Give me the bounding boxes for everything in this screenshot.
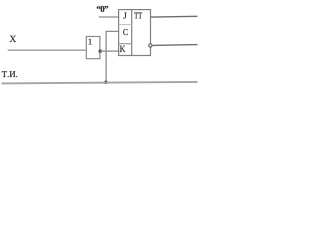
net T.I (clock) label	[2, 71, 17, 77]
wire X input to inverter	[8, 49, 86, 51]
junction dot A at inverter output	[98, 49, 102, 53]
flip-flop pin-field divider	[131, 10, 133, 56]
divider C/K	[119, 43, 132, 45]
pin C label	[123, 29, 127, 35]
flip-flop U2 box	[119, 10, 151, 56]
constant level label "0"	[97, 6, 108, 12]
wire Q-bar output	[152, 44, 197, 47]
divider J/C	[119, 24, 132, 26]
wire Q output	[151, 15, 198, 18]
wire constant 0 to J input	[99, 16, 120, 18]
pin J label	[123, 13, 126, 19]
inverter U1 label "1"	[89, 39, 92, 45]
wire C stub	[106, 30, 120, 32]
wire inverter output to K input	[100, 50, 119, 52]
inversion bubble on Q-bar output	[149, 44, 152, 47]
inverter U1 box	[86, 37, 100, 59]
node X label	[10, 36, 16, 42]
pin K label	[120, 46, 126, 52]
flip-flop TT label	[134, 13, 142, 19]
junction dot B on T.I bus	[104, 81, 108, 85]
wire clock vertical from T.I bus to C stub	[105, 31, 107, 82]
wire T.I clock bus	[2, 82, 198, 84]
